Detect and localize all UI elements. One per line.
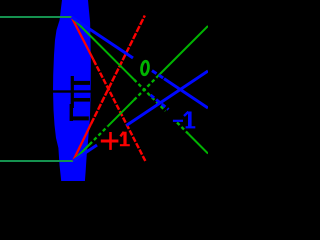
label 0 (green) xyxy=(141,61,149,75)
lens groove hbar 4 xyxy=(70,116,89,120)
lens groove vbar b xyxy=(70,104,73,121)
ray green top solid 2 xyxy=(189,134,209,154)
ray red bottom solid (order +1 from bottom ray) xyxy=(73,124,91,161)
ray green bottom solid 2 xyxy=(108,100,134,126)
ray green bottom solid 3 xyxy=(157,26,208,77)
ray green top dashed 2 xyxy=(177,123,189,135)
ray red bottom dashed xyxy=(91,16,145,124)
lens mid line (hbar 2, full width) xyxy=(52,90,91,92)
lens groove vbar a xyxy=(71,76,74,108)
ray blue bottom solid a (order -1 from bottom ray) xyxy=(73,145,97,161)
ray blue bottom solid b xyxy=(127,71,209,125)
blue dashed pointer segment xyxy=(151,95,169,110)
ray red top solid (order +1 from top ray) xyxy=(72,17,94,60)
lens groove hbar 3 xyxy=(71,98,90,102)
ray blue top dashed xyxy=(152,71,164,79)
ray green top dashed xyxy=(134,80,166,112)
ray green top solid 1 (order 0 from top ray) xyxy=(72,17,135,80)
label +1 (red) xyxy=(101,132,130,150)
lens groove hbar 1 xyxy=(71,81,90,85)
ray blue top solid 2 xyxy=(164,79,208,108)
label -1 (blue) xyxy=(173,112,195,128)
ray red top dashed xyxy=(94,60,147,162)
input ray bottom (green horizontal) xyxy=(0,160,73,162)
input ray top (green horizontal) xyxy=(0,16,72,18)
lens (blue diffractive lens body) xyxy=(53,0,91,181)
ray green bottom dashed 1 xyxy=(90,126,108,144)
ray green bottom dashed 2 xyxy=(134,77,157,100)
ray green bottom solid 1 (order 0 from bottom ray) xyxy=(73,145,90,162)
ray blue top solid 1 (order -1 from top ray) xyxy=(72,17,134,58)
